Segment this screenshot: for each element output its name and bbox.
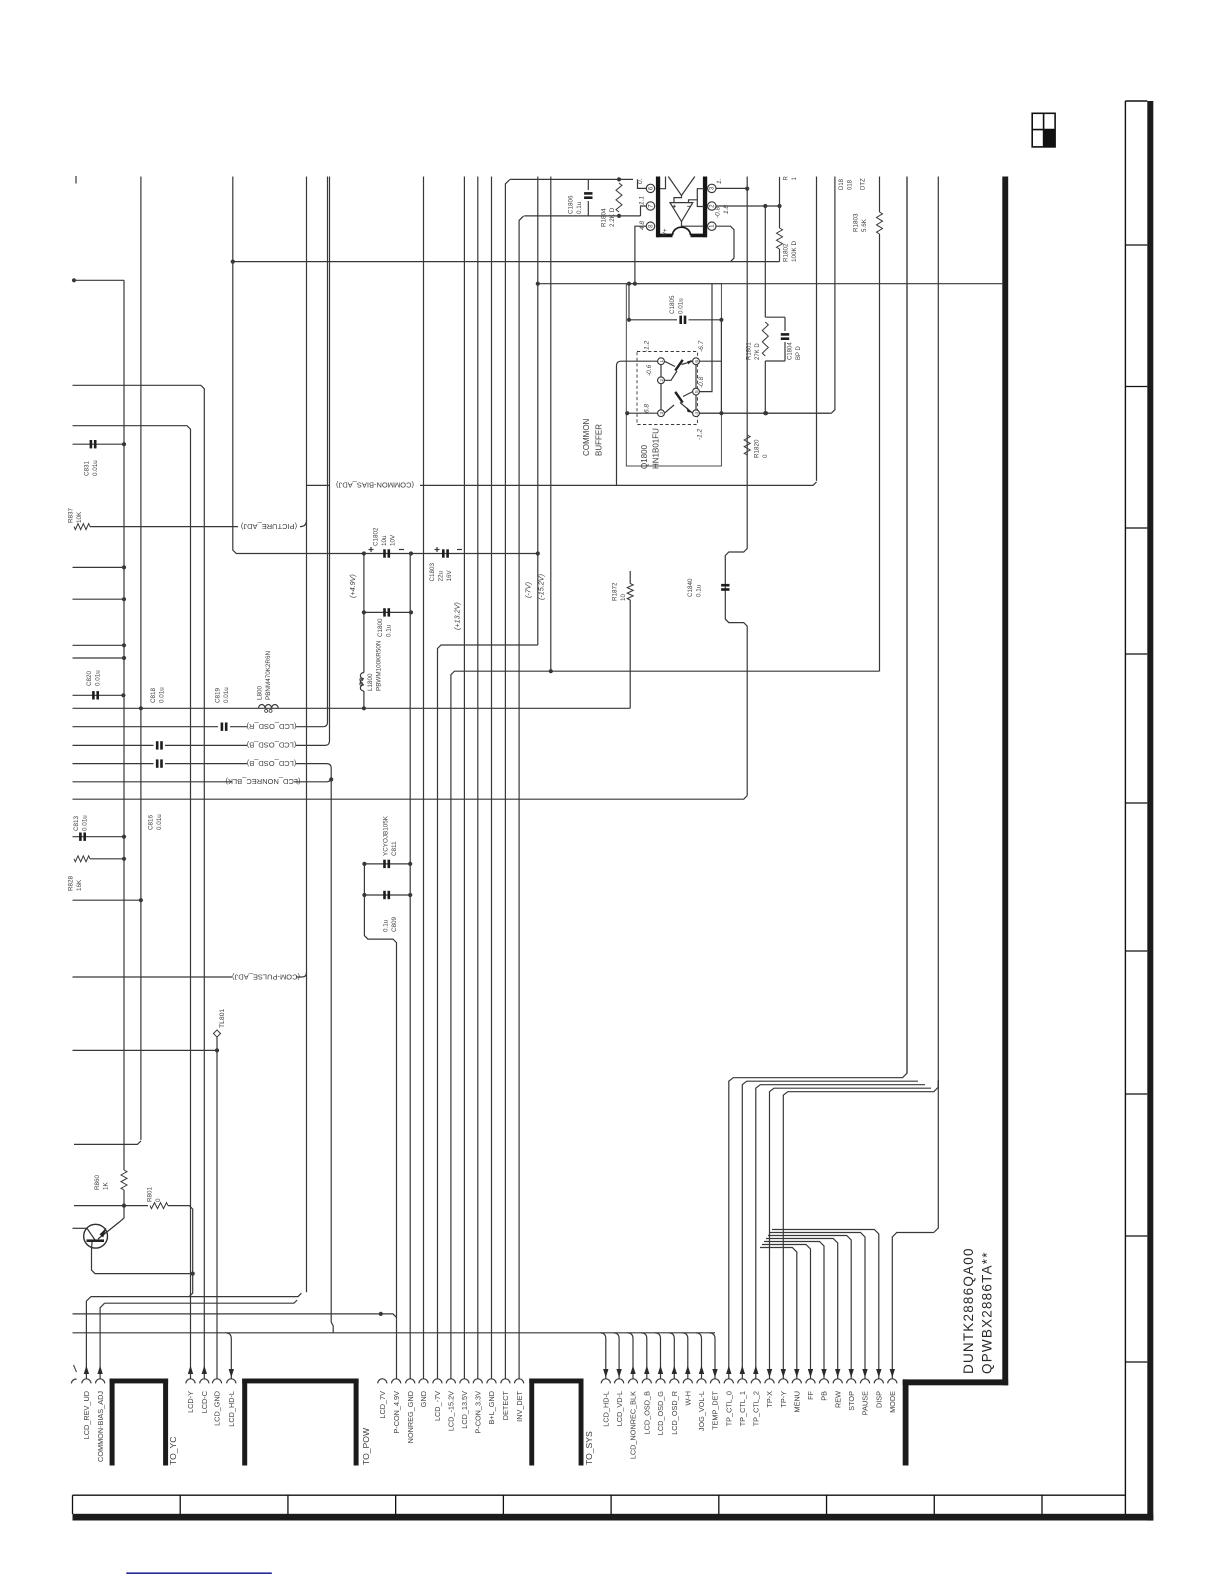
pin LCD_REV_UD — [82, 1379, 91, 1384]
Q1800 enclosure box — [626, 284, 721, 466]
vertical B+L_GND — [491, 177, 493, 1379]
svg-text:16V: 16V — [446, 569, 453, 581]
pin LCD_NONREC_BLK — [628, 1379, 637, 1384]
Q1800 wires — [660, 365, 662, 377]
pin LCD-Y — [186, 1379, 195, 1384]
svg-text:0.01u: 0.01u — [94, 670, 101, 686]
svg-text:2.2K D: 2.2K D — [609, 207, 616, 227]
svg-text:(LCD_OSD_B): (LCD_OSD_B) — [246, 759, 296, 768]
svg-text:TP-X: TP-X — [765, 1391, 774, 1408]
op-amp triangle lower — [670, 203, 693, 222]
svg-text:1.1: 1.1 — [639, 196, 646, 205]
svg-text:10: 10 — [620, 593, 627, 601]
Q1800 pin 6 — [693, 358, 700, 365]
svg-text:R1820: R1820 — [754, 439, 761, 458]
svg-text:LCD-Y: LCD-Y — [186, 1391, 195, 1413]
svg-text:R1801: R1801 — [747, 342, 753, 360]
vertical x=364 lower — [364, 864, 396, 1379]
svg-text:TP-Y: TP-Y — [779, 1391, 788, 1408]
pin STOP — [847, 1379, 856, 1384]
svg-text:FF: FF — [806, 1390, 815, 1399]
svg-text:V+: V+ — [663, 228, 669, 236]
svg-text:C816: C816 — [148, 814, 155, 830]
svg-text:C831: C831 — [84, 460, 91, 476]
resistor R860 — [121, 1170, 127, 1190]
svg-text:C818: C818 — [150, 687, 157, 703]
svg-text:COMMON-BIAS_ADJ: COMMON-BIAS_ADJ — [96, 1391, 105, 1462]
pin TP_CTL_0 — [724, 1379, 733, 1384]
svg-text:0.1u: 0.1u — [696, 584, 703, 597]
registration checker icon — [1032, 113, 1055, 147]
vertical -7V rail riser — [537, 177, 539, 646]
page border thick right bar — [1147, 101, 1153, 1521]
svg-text:BUFFER: BUFFER — [595, 424, 604, 456]
svg-text:JOG_VOL-L: JOG_VOL-L — [697, 1391, 706, 1431]
svg-text:0.01u: 0.01u — [678, 298, 685, 314]
svg-text:DISP: DISP — [875, 1391, 884, 1408]
svg-text:LCD_HD-L: LCD_HD-L — [602, 1391, 611, 1427]
svg-text:(LCD_OSD_R): (LCD_OSD_R) — [246, 722, 297, 731]
rail y=553.5 junctions — [362, 551, 366, 555]
svg-text:6: 6 — [694, 360, 700, 363]
pin P-CON_4.9V — [392, 1379, 401, 1384]
wire (LCD_NONREC_BLK) — [73, 781, 233, 783]
svg-text:LCD_VD-L: LCD_VD-L — [615, 1391, 624, 1426]
capacitor C813 — [73, 836, 125, 838]
svg-text:C819: C819 — [215, 687, 222, 703]
svg-text:0.1u: 0.1u — [576, 201, 583, 214]
pin B+L_GND — [487, 1379, 496, 1384]
vertical x=816.5 — [816, 177, 818, 481]
connector bracket TO_YC — [110, 1379, 115, 1466]
vertical -15.2V riser — [550, 177, 552, 672]
svg-text:W-H: W-H — [684, 1391, 693, 1405]
capacitor C1800 — [364, 611, 411, 613]
Q1800 pin 1 — [658, 358, 665, 365]
svg-text:TO_SYS: TO_SYS — [584, 1431, 594, 1465]
svg-text:TP_CTL_2: TP_CTL_2 — [752, 1391, 761, 1426]
pin LCD_7V — [378, 1379, 387, 1384]
svg-text:1.8: 1.8 — [723, 205, 730, 214]
svg-text:0.01u: 0.01u — [156, 814, 163, 830]
MODE riser joins long vertical — [892, 1233, 934, 1379]
svg-text:C1805: C1805 — [669, 295, 676, 314]
IC pin 6 — [646, 184, 654, 192]
pin TP_CTL_2 — [751, 1379, 760, 1384]
resistor R828 — [74, 856, 90, 862]
svg-text:Q1800: Q1800 — [640, 444, 649, 469]
resistor R1820 — [744, 435, 750, 455]
svg-text:DTZ: DTZ — [861, 178, 867, 190]
svg-text:LCD_-7V: LCD_-7V — [433, 1391, 442, 1421]
wire C831 node — [73, 443, 125, 445]
Q1800 pin 2 — [658, 377, 665, 384]
resistor R837 — [74, 524, 90, 530]
svg-text:GND: GND — [419, 1391, 428, 1407]
svg-text:0.01u: 0.01u — [223, 687, 230, 703]
svg-text:-0.6: -0.6 — [646, 364, 653, 376]
svg-text:1: 1 — [792, 177, 798, 181]
top edge tick — [75, 176, 77, 184]
blue link underline — [126, 1572, 271, 1574]
svg-text:LCD_NONREC_BLK: LCD_NONREC_BLK — [629, 1391, 638, 1459]
bus y=1332.8 peel-offs — [600, 1333, 606, 1379]
svg-text:MODE: MODE — [888, 1391, 897, 1413]
long bus y=1313.9 to LCD_VD-L — [73, 1314, 397, 1318]
svg-text:LCD_GND: LCD_GND — [213, 1391, 222, 1426]
svg-text:P-CON_4.9V: P-CON_4.9V — [392, 1391, 401, 1434]
page border thick bottom bar — [73, 1514, 1154, 1521]
vertical INV_DET — [519, 216, 524, 1379]
svg-text:0: 0 — [155, 1198, 162, 1202]
capacitor C831 — [90, 440, 93, 448]
op-amp body bottom with notch — [656, 234, 672, 238]
transistor pair Q1800 dashed box — [637, 352, 698, 425]
svg-text:R1802: R1802 — [783, 243, 790, 262]
test point TL801 — [73, 1049, 218, 1051]
vertical DETECT — [505, 179, 510, 1378]
svg-text:PAUSE: PAUSE — [861, 1391, 870, 1415]
svg-text:LCD_13.5V: LCD_13.5V — [460, 1391, 469, 1429]
svg-text:P-CON_3.3V: P-CON_3.3V — [474, 1391, 483, 1434]
rail y=215.9 — [524, 215, 640, 217]
svg-text:TP_CTL_1: TP_CTL_1 — [738, 1391, 747, 1426]
capacitor C809 — [364, 894, 410, 896]
svg-text:2: 2 — [659, 379, 665, 382]
svg-text:R1803: R1803 — [853, 213, 860, 232]
svg-text:L800: L800 — [257, 685, 264, 700]
svg-text:100K D: 100K D — [791, 241, 798, 262]
pin LCD_13.5V — [460, 1379, 469, 1384]
pin REW — [833, 1379, 842, 1384]
svg-text:0.1u: 0.1u — [386, 624, 393, 637]
svg-text:C1840: C1840 — [687, 578, 694, 597]
pin PB — [819, 1379, 828, 1384]
svg-text:(LCD_OSD_B): (LCD_OSD_B) — [246, 741, 296, 750]
pin TP-Y — [779, 1379, 788, 1384]
svg-text:C1800: C1800 — [377, 618, 384, 637]
vertical x=364 — [363, 554, 365, 673]
svg-text:10u: 10u — [381, 535, 388, 546]
op-amp triangle upper (cut) — [668, 177, 695, 196]
pin TEMP_DET — [710, 1379, 719, 1384]
svg-text:R801: R801 — [147, 1186, 154, 1202]
svg-text:0.01u: 0.01u — [92, 460, 99, 476]
svg-text:COMMON: COMMON — [582, 418, 591, 456]
pin LCD_OSD_B — [642, 1379, 651, 1384]
svg-text:DETECT: DETECT — [501, 1390, 510, 1420]
svg-text:(PICTURE_ADJ): (PICTURE_ADJ) — [240, 522, 297, 531]
svg-text:TEMP_DET: TEMP_DET — [711, 1390, 720, 1429]
capacitor C811 — [364, 863, 410, 865]
svg-text:-0.8: -0.8 — [698, 376, 705, 388]
wire top-left corner node — [72, 278, 76, 282]
Q1800 pin 4 — [693, 410, 700, 417]
resistor R1802 — [779, 177, 781, 228]
rail y=283.7 — [538, 283, 1003, 285]
svg-text:MENU: MENU — [793, 1391, 802, 1413]
bottom strip — [73, 1494, 1126, 1496]
pin TP-X — [765, 1379, 774, 1384]
svg-text:STOP: STOP — [847, 1391, 856, 1411]
pin DETECT — [501, 1379, 510, 1384]
Q1800 pin 3 — [658, 410, 665, 417]
svg-text:C809: C809 — [391, 916, 398, 932]
svg-text:TP_CTL_0: TP_CTL_0 — [725, 1391, 734, 1426]
svg-text:REW: REW — [833, 1391, 842, 1408]
Q1800 transistor upper — [674, 359, 683, 371]
pin INV_DET — [515, 1379, 524, 1384]
svg-text:1: 1 — [659, 360, 665, 363]
pin COMMON-BIAS_ADJ — [96, 1379, 105, 1384]
pin MENU — [792, 1379, 801, 1384]
svg-text:3: 3 — [659, 412, 665, 415]
stub wires into bus — [73, 566, 125, 568]
svg-text:018: 018 — [848, 179, 854, 190]
pin LCD_-7V — [433, 1379, 442, 1384]
vertical common-adj riser — [306, 177, 308, 1293]
svg-text:TO_POW: TO_POW — [361, 1427, 371, 1465]
resistor R1872 — [629, 571, 631, 584]
long vertical x=938 — [934, 1080, 939, 1233]
svg-text:6.8: 6.8 — [644, 404, 651, 413]
wire R801 line — [74, 1205, 148, 1207]
svg-text:C820: C820 — [86, 670, 93, 686]
wire y=1144 — [74, 1141, 141, 1145]
pin MODE — [888, 1379, 897, 1384]
connector bracket TO_SYS — [529, 1379, 534, 1466]
resistor R801 — [150, 1203, 168, 1209]
svg-text:BP D: BP D — [796, 345, 802, 360]
svg-text:C1803: C1803 — [429, 562, 436, 581]
pin LCD_VD-L — [615, 1379, 624, 1384]
svg-text:C813: C813 — [73, 815, 80, 831]
wire to LCD-Y — [73, 426, 191, 1379]
IC pin 3 — [708, 184, 716, 192]
Q1800 pin 5 — [693, 388, 700, 395]
svg-text:(COM-PULSE_ADJ): (COM-PULSE_ADJ) — [232, 972, 300, 981]
svg-text:0.01u: 0.01u — [82, 815, 89, 831]
resistor R1804 — [617, 177, 621, 181]
svg-text:(+13.2V): (+13.2V) — [453, 602, 462, 630]
svg-text:1.: 1. — [716, 178, 723, 184]
svg-text:PBNM470K2R6N: PBNM470K2R6N — [265, 651, 272, 700]
wire bus x=232.8 — [233, 177, 539, 554]
wire to LCD_REV_UD — [91, 1293, 302, 1296]
bus y=1332.8 to LCD_HD-L(YC) — [73, 1332, 716, 1334]
svg-text:C1804: C1804 — [788, 342, 794, 360]
svg-text:LCD_HD-L: LCD_HD-L — [227, 1391, 236, 1427]
svg-text:LCD_7V: LCD_7V — [378, 1391, 387, 1419]
svg-text:R1804: R1804 — [601, 208, 608, 227]
transistor Q860 — [84, 1224, 108, 1248]
top rail y=179.4 — [510, 178, 633, 180]
pin PAUSE — [860, 1379, 869, 1384]
svg-text:R837: R837 — [68, 507, 75, 523]
capacitor C820 — [73, 694, 125, 696]
capacitor C1806 — [587, 179, 589, 190]
pin TP_CTL_1 — [738, 1379, 747, 1384]
svg-text:16K: 16K — [76, 879, 83, 891]
svg-text:(COMMON-BIAS_ADJ): (COMMON-BIAS_ADJ) — [336, 481, 414, 490]
pin JOG_VOL-L — [697, 1379, 706, 1384]
IC pin 7 — [646, 202, 654, 210]
svg-text:B+L_GND: B+L_GND — [487, 1391, 496, 1424]
svg-text:10K: 10K — [76, 511, 83, 523]
long horizontal rail y=799 — [73, 796, 748, 800]
svg-text:(-7V): (-7V) — [524, 582, 533, 598]
svg-text:C1806: C1806 — [568, 195, 575, 214]
vertical P-CON_3.3V — [477, 177, 479, 1379]
pin LCD_GND — [212, 1379, 221, 1384]
pin LCD_OSD_G — [656, 1379, 665, 1384]
pin LCD_HD-L — [601, 1379, 610, 1384]
svg-text:INV_DET: INV_DET — [515, 1390, 524, 1421]
svg-text:0: 0 — [762, 454, 769, 458]
bus vertical x=124 — [123, 280, 125, 1170]
svg-text:4.8: 4.8 — [639, 221, 646, 230]
wire x=765 R1801 feed — [764, 206, 766, 317]
vertical LCD_13.5V — [463, 177, 465, 1379]
pin GND — [419, 1379, 428, 1384]
bold block boundary (right side of circuit, steps into TO_SYS bracket) — [1002, 177, 1008, 1386]
vertical LCD_-7V — [438, 645, 538, 1379]
svg-text:DUNTK2886QA00: DUNTK2886QA00 — [961, 1247, 976, 1374]
pin FF — [806, 1379, 815, 1384]
svg-text:R828: R828 — [68, 875, 75, 891]
svg-text:PB: PB — [820, 1391, 829, 1401]
svg-text:4: 4 — [694, 412, 700, 415]
capacitor C1803 polarized — [442, 549, 445, 557]
svg-text:(LCD_NONREC_BLK): (LCD_NONREC_BLK) — [225, 777, 301, 786]
pin NONREG_GND — [406, 1379, 415, 1384]
pin W-H — [683, 1379, 692, 1384]
svg-text:27K D: 27K D — [755, 343, 761, 360]
resistor R1801 / capacitor C1804 parallel — [765, 316, 785, 318]
svg-text:TO_YC: TO_YC — [168, 1437, 178, 1466]
inductor L800 — [259, 705, 279, 709]
svg-text:R860: R860 — [94, 1174, 101, 1190]
inductor L1800 — [360, 673, 364, 692]
TP_CTL risers — [729, 177, 907, 1379]
vertical LCD_-15.2V — [451, 671, 880, 1378]
bus vertical x=141 — [140, 177, 142, 1140]
vertical x=906 — [906, 177, 908, 1074]
svg-text:C1802: C1802 — [373, 527, 380, 546]
svg-text:5.6K: 5.6K — [861, 218, 868, 232]
page border right column — [1124, 101, 1126, 1514]
IC pin 1 — [708, 222, 716, 230]
svg-text:C811: C811 — [391, 841, 398, 856]
main horizontal rail y=708 — [73, 707, 631, 709]
wire (PICTURE_ADJ) — [90, 526, 238, 528]
svg-text:HN1B01FU: HN1B01FU — [652, 428, 661, 469]
svg-text:YCYOJB105K: YCYOJB105K — [383, 815, 390, 856]
svg-text:-0.8: -0.8 — [715, 206, 722, 218]
wire to COMMON-BIAS_ADJ pin — [105, 1300, 298, 1303]
pin LCD-C — [200, 1379, 209, 1384]
IC pin 8 — [646, 222, 654, 230]
rail y=261.6 — [233, 261, 780, 263]
svg-text:TL801: TL801 — [219, 1009, 226, 1028]
capacitor C1802 polarized — [383, 549, 386, 557]
svg-text:0.: 0. — [637, 178, 644, 184]
svg-text:D18: D18 — [839, 178, 845, 190]
svg-text:22u: 22u — [438, 570, 445, 581]
svg-text:LCD_-15.2V: LCD_-15.2V — [447, 1391, 456, 1431]
svg-text:5: 5 — [694, 390, 700, 393]
svg-text:L1800: L1800 — [367, 673, 374, 691]
wire to LCD-C — [73, 385, 205, 1378]
vertical x=835 — [699, 177, 835, 414]
svg-text:QPWBX2886TA**: QPWBX2886TA** — [980, 1251, 995, 1374]
svg-text:0.01u: 0.01u — [159, 687, 166, 703]
wire y=900 — [73, 899, 141, 901]
wire (LCD_OSD_R) with cap C819 — [73, 726, 219, 728]
IC pin 2 — [708, 202, 716, 210]
svg-text:10V: 10V — [390, 534, 397, 546]
op-amp internal wires — [660, 177, 666, 189]
net (COMMON-BIAS_ADJ) — [307, 484, 331, 486]
resistor R1803 — [879, 177, 881, 213]
Q1800 transistor lower — [674, 391, 683, 403]
svg-text:LCD-C: LCD-C — [200, 1391, 209, 1413]
svg-text:LCD_REV_UD: LCD_REV_UD — [82, 1391, 91, 1439]
svg-text:0.1u: 0.1u — [383, 919, 390, 932]
pin LCD_-15.2V — [446, 1379, 455, 1384]
svg-text:R1872: R1872 — [612, 582, 619, 601]
Q1800 pin6/pin5 wires — [699, 360, 721, 362]
svg-text:NONREG_GND: NONREG_GND — [406, 1391, 415, 1443]
pin LCD_HD-L — [227, 1379, 236, 1384]
connector pin cut stub — [74, 1365, 77, 1372]
vertical x=410 NONREG_GND — [409, 554, 411, 1379]
pin DISP — [874, 1379, 883, 1384]
connector bracket TO_POW — [242, 1379, 247, 1466]
capacitor C1805 — [628, 284, 630, 320]
vertical GND — [423, 177, 425, 1379]
svg-text:-1.2: -1.2 — [644, 340, 651, 352]
pin P-CON_3.3V — [473, 1379, 482, 1384]
svg-text:LCD_OSD_B: LCD_OSD_B — [643, 1391, 652, 1435]
wire (LCD_OSD_B) lower with cap C816 — [73, 763, 154, 765]
svg-text:(+4.9V): (+4.9V) — [348, 574, 357, 598]
svg-text:-1.2: -1.2 — [697, 428, 704, 440]
pin LCD_OSD_R — [670, 1379, 679, 1384]
capacitor C1840 branch — [725, 177, 747, 796]
net (COM-PULSE_ADJ) — [73, 976, 233, 978]
svg-text:-6.7: -6.7 — [698, 340, 705, 352]
svg-text:PBWM100KR50N: PBWM100KR50N — [376, 640, 383, 691]
svg-text:LCD_OSD_R: LCD_OSD_R — [670, 1391, 679, 1435]
MENU..DISP risers — [760, 1248, 797, 1379]
op-amp U1800 body bars — [656, 177, 660, 238]
wire (LCD_OSD_B) with cap C818 — [73, 744, 154, 746]
svg-text:LCD_OSD_G: LCD_OSD_G — [656, 1391, 665, 1436]
svg-text:R: R — [784, 176, 790, 181]
svg-text:1K: 1K — [103, 1181, 110, 1190]
wire LCD_GND riser — [216, 1050, 218, 1378]
